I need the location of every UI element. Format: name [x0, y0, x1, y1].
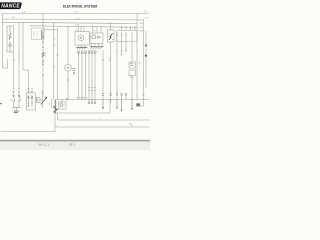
SG3 right link [52, 99, 56, 108]
B2 dark streak [42, 30, 43, 39]
right arrow stubs below bus [117, 100, 132, 112]
bottom mid tick [131, 125, 133, 128]
ground hatch B3 [90, 46, 104, 48]
fuse C4 [108, 30, 115, 42]
connector row under B3 [88, 51, 90, 53]
switch group SG1 [13, 95, 15, 97]
arrow stubs below bus x89-95 [89, 100, 95, 104]
wire ticks x14 x19 [13, 56, 20, 60]
wire x53.5 [53, 22, 55, 99]
stub into box A [61, 100, 63, 103]
wire x14 [13, 52, 15, 89]
arrowheads right [116, 107, 133, 111]
SG3 plug box [36, 98, 40, 103]
SG1 bottom bar [12, 106, 20, 108]
G2 side label [73, 69, 76, 74]
G2 internal mark [67, 67, 69, 69]
svg-text:-28 S.: -28 S. [68, 142, 76, 146]
connector bars above bus right [116, 93, 145, 95]
flasher internal marks [130, 64, 133, 78]
bus H4 [44, 26, 137, 27]
SG3 top connector marks [42, 92, 44, 94]
right vertical x137 [136, 14, 138, 100]
gauge circle G1 [78, 35, 84, 41]
B3 inner triangle [98, 36, 101, 39]
wire x23 [22, 22, 24, 70]
junction blob [136, 103, 140, 106]
inner box A marks [60, 104, 65, 107]
SG1 contact slashes [14, 97, 21, 101]
right vertical x121.5 [121, 32, 123, 100]
B3 lower stubs [92, 44, 103, 47]
component box CB1 [7, 26, 14, 52]
flasher wire x132 bottom [131, 76, 133, 100]
SG1 legs [14, 101, 20, 108]
connector between G1 and B3 [88, 36, 91, 39]
top tiny labels [12, 11, 150, 127]
transistor cluster [55, 100, 57, 114]
segment y29.8 [44, 29, 58, 31]
gauge circle G2 [65, 65, 72, 72]
CB1 internal wire [9, 26, 11, 52]
x57.5 tick [57, 54, 59, 56]
G1 lower stubs [79, 45, 85, 47]
wire left edge vertical [2, 14, 7, 69]
SG1 bottom stub [15, 107, 17, 110]
RB2 bottom [117, 41, 138, 43]
gauge box G1 [75, 32, 90, 46]
x146 dark ticks [145, 45, 147, 56]
connector row under G1 [78, 51, 80, 54]
B2 top segment [29, 25, 44, 27]
x43 component ticks [42, 37, 44, 75]
svg-text:4M: 4M [129, 123, 132, 125]
x43 component labels [42, 54, 46, 65]
arrowheads x89-95 [88, 102, 96, 104]
right vertical x117 [116, 32, 118, 100]
wire x19 [18, 22, 20, 89]
arrowhead x103 [102, 107, 104, 109]
C4 stubs [110, 22, 112, 99]
bottom wire 2 [55, 113, 150, 132]
footer rule [0, 139, 150, 142]
main lower bus [55, 99, 150, 101]
B3 top stubs [93, 26, 102, 33]
wire x43 vertical [42, 14, 44, 95]
x53.5 ticks [53, 39, 56, 67]
RB2 sides [117, 31, 138, 42]
bus H2 [2, 19, 143, 20]
SG2 right label [37, 100, 40, 102]
junction blob wire [140, 100, 144, 107]
C4 inner mark [109, 33, 113, 39]
connector marks left column [13, 89, 34, 92]
RB2 top stubs [122, 26, 136, 31]
CB1 circle [9, 44, 11, 46]
x103 ticks [102, 58, 111, 61]
right vertical x143.5 [143, 19, 145, 100]
B2 internal marks [34, 31, 37, 36]
footer band [0, 141, 150, 150]
stubs below bus x103 x110 [103, 100, 111, 109]
SG3 diagonal arrow [41, 97, 47, 105]
left edge mark [0, 103, 2, 104]
SG3 main wire [42, 94, 44, 109]
SG2 internals [29, 95, 33, 108]
svg-text:NANCE: NANCE [1, 4, 20, 10]
flasher wire x132 top [131, 32, 133, 62]
flasher side label [139, 63, 141, 65]
bus H3 [2, 22, 137, 23]
SG1 left tiny label [10, 100, 12, 102]
bottom wire 3 [1, 131, 55, 133]
ticks on mid wires [88, 88, 96, 91]
flasher box F2 [129, 70, 136, 76]
SG1 contact bars [12, 100, 20, 102]
relay box B3 [90, 33, 103, 44]
wire x103 [102, 50, 104, 100]
x68 tick [67, 79, 69, 81]
terminal circles x78-86 [78, 97, 80, 99]
flasher box F1 [129, 62, 136, 68]
B3 inner rect [92, 35, 95, 39]
SG2 contact marks [28, 103, 34, 106]
bottom wire 1 [58, 113, 150, 120]
wire x57.5 [57, 29, 59, 100]
SG3 plug leads [35, 99, 43, 101]
bus H1 [2, 13, 149, 15]
ground hatch G1 [76, 46, 87, 48]
right vertical x146 [145, 31, 147, 88]
badge [0, 2, 22, 9]
page background [0, 0, 150, 150]
SG1 dark label [14, 111, 19, 113]
C4 diagonal [109, 33, 112, 39]
T terminals x103 x110 [102, 94, 104, 96]
G1 top stubs [79, 26, 85, 32]
component box B2 [32, 28, 45, 40]
svg-text:W 4.1.2: W 4.1.2 [39, 142, 50, 146]
SG3 tick [49, 103, 51, 105]
wire x28.5 [28, 70, 30, 93]
zigzag component x43 [42, 52, 44, 57]
connector box RB2 top [117, 30, 138, 32]
right vertical x126 [125, 32, 127, 100]
junction box outline [55, 100, 110, 114]
ticks on right verticals [116, 35, 138, 51]
mid verticals arrows column [89, 52, 95, 100]
wire x68 [67, 26, 69, 100]
mid verticals below hatch [79, 52, 86, 98]
G1 internal mark [80, 37, 82, 39]
CB1 zigzag [9, 33, 11, 40]
bridge y70 [23, 69, 29, 71]
terminal circle on box edge [66, 98, 68, 100]
transistor strokes [53, 106, 58, 113]
inner box A [59, 102, 67, 109]
stub x14 connector to SG1 [14, 92, 33, 96]
svg-text:ELECTRICAL SYSTEM: ELECTRICAL SYSTEM [63, 4, 97, 8]
switch group SG2 box [27, 93, 36, 110]
